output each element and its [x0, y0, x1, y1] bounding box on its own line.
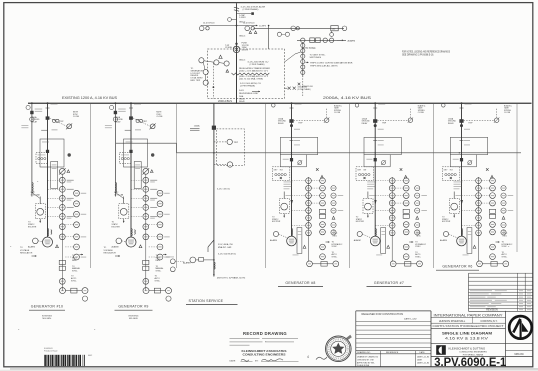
- svg-text:3-1/C 500 MCM CU: 3-1/C 500 MCM CU: [218, 254, 237, 256]
- svg-text:ALARM: ALARM: [112, 246, 119, 249]
- svg-text:4: 4: [307, 355, 309, 359]
- svg-text:EXCITER: EXCITER: [28, 226, 37, 228]
- svg-text:MVA INT. CAP.: MVA INT. CAP.: [218, 246, 232, 249]
- svg-text:REFERENCE: REFERENCE: [386, 352, 399, 354]
- svg-text:GND-5: GND-5: [239, 59, 246, 61]
- svg-text:34.5KV: 34.5KV: [242, 50, 249, 52]
- svg-text:SYNC.: SYNC.: [415, 257, 421, 259]
- svg-text:SINGLE LINE DIAGRAM: SINGLE LINE DIAGRAM: [442, 331, 492, 335]
- svg-text:REGULATOR: REGULATOR: [104, 251, 117, 254]
- svg-text:200: 200: [332, 29, 335, 31]
- svg-text:RELAY: RELAY: [278, 122, 285, 125]
- svg-text:SYNC.: SYNC.: [332, 246, 338, 248]
- svg-text:3.PV.6090.E-1: 3.PV.6090.E-1: [434, 355, 506, 369]
- svg-text:(3 PER PHASE): (3 PER PHASE): [298, 88, 311, 91]
- svg-text:INTERNATIONAL PAPER COMPANY: INTERNATIONAL PAPER COMPANY: [434, 313, 504, 317]
- svg-text:2000A, 4.16 KV BUS: 2000A, 4.16 KV BUS: [323, 96, 371, 100]
- svg-text:STATION SERVICE: STATION SERVICE: [189, 299, 224, 303]
- svg-text:DATE:: DATE:: [230, 359, 237, 362]
- svg-text:1200A: 1200A: [194, 125, 200, 128]
- svg-text:MG GEN.: MG GEN.: [42, 318, 51, 320]
- svg-text:EXCITER: EXCITER: [272, 221, 281, 223]
- svg-text:REGULATOR: REGULATOR: [20, 251, 33, 254]
- svg-text:TRIP: TRIP: [234, 142, 239, 144]
- svg-text:EXCITER: EXCITER: [112, 226, 121, 228]
- svg-text:SYNC.: SYNC.: [156, 271, 162, 273]
- svg-text:CLOSE: CLOSE: [156, 116, 163, 118]
- svg-text:DATE 1-21-80: DATE 1-21-80: [417, 355, 429, 358]
- svg-text:APPROVED BY SEL: APPROVED BY SEL: [357, 361, 375, 364]
- svg-text:DRAWING NO.: DRAWING NO.: [357, 351, 371, 354]
- svg-text:ALARM: ALARM: [348, 39, 356, 42]
- svg-text:REG.: REG.: [333, 235, 338, 237]
- svg-text:ALARM: ALARM: [183, 261, 191, 264]
- svg-text:480Y/277V, 3-PHASE, 60 HZ: 480Y/277V, 3-PHASE, 60 HZ: [217, 277, 246, 280]
- svg-text:CHECKED BY JTM: CHECKED BY JTM: [357, 359, 374, 361]
- svg-text:M05-039: M05-039: [514, 354, 524, 356]
- svg-text:GENERATOR #10: GENERATOR #10: [31, 305, 64, 309]
- svg-text:EXISTING 1200 A, 4.16 KV BUS: EXISTING 1200 A, 4.16 KV BUS: [62, 96, 117, 100]
- svg-text:GND-5: GND-5: [239, 35, 246, 37]
- svg-text:4042: 4042: [88, 355, 92, 357]
- svg-text:RELAY: RELAY: [115, 120, 122, 123]
- svg-text:EXCITER: EXCITER: [442, 221, 451, 223]
- svg-text:(2 PER PHASE): (2 PER PHASE): [240, 85, 255, 88]
- svg-text:14.4 KV/120: 14.4 KV/120: [203, 22, 215, 24]
- svg-text:KLEINSCHMIDT & DUTTING: KLEINSCHMIDT & DUTTING: [449, 346, 486, 350]
- svg-text:REG.: REG.: [416, 235, 421, 237]
- svg-text:RELAY: RELAY: [448, 122, 455, 125]
- svg-text:H0567/J-200: H0567/J-200: [302, 86, 313, 88]
- svg-text:REG.: REG.: [156, 260, 161, 262]
- svg-text:CLOSE: CLOSE: [418, 112, 425, 114]
- svg-text:BY:: BY:: [255, 360, 259, 362]
- svg-text:3-003: 3-003: [239, 90, 244, 92]
- svg-text:TRIPS 5E6 & AT ALL UNITS: TRIPS 5E6 & AT ALL UNITS: [310, 64, 338, 67]
- svg-text:REG.: REG.: [503, 235, 508, 237]
- svg-text:ALARM: ALARM: [440, 239, 447, 242]
- svg-text:14.4 KV/120: 14.4 KV/120: [243, 22, 255, 24]
- svg-text:(241.72 212 MVA, OHSE): (241.72 212 MVA, OHSE): [239, 78, 263, 81]
- svg-text:REG.: REG.: [72, 260, 77, 262]
- svg-text:SYNC.: SYNC.: [502, 246, 508, 248]
- svg-text:ALARM: ALARM: [270, 239, 277, 242]
- svg-text:BKR. TRIP: BKR. TRIP: [191, 80, 201, 82]
- svg-text:1-35KV: 1-35KV: [239, 17, 246, 19]
- svg-text:VOLTAGE: VOLTAGE: [104, 249, 114, 252]
- svg-text:SWITCHES: SWITCHES: [310, 57, 322, 59]
- svg-text:ALARM: ALARM: [354, 239, 361, 242]
- svg-text:CURTIS STATION HYDROELECTRIC P: CURTIS STATION HYDROELECTRIC PROJECT: [433, 324, 505, 328]
- svg-text:REVISION: REVISION: [486, 309, 498, 312]
- svg-text:EXCITER: EXCITER: [356, 221, 365, 223]
- svg-text:TO UNIT SYNC.: TO UNIT SYNC.: [310, 54, 326, 56]
- svg-text:DRAWN BY CEA/WOOD: DRAWN BY CEA/WOOD: [357, 355, 379, 358]
- svg-text:RELEASED FOR CONSTRUCTION: RELEASED FOR CONSTRUCTION: [362, 312, 404, 316]
- svg-text:SYNC.: SYNC.: [155, 280, 161, 282]
- svg-text:CLOSE: CLOSE: [504, 112, 511, 114]
- svg-text:2000 A BUS: 2000 A BUS: [218, 99, 232, 103]
- svg-text:CONSULTING ENGINEERS: CONSULTING ENGINEERS: [459, 352, 487, 354]
- svg-text:VOLTAGE: VOLTAGE: [20, 249, 30, 252]
- svg-text:2L-MPS: 2L-MPS: [259, 26, 267, 28]
- svg-text:Potsdam Road: Potsdam Road: [44, 350, 57, 353]
- svg-text:4.16 KV & 13.8 KV: 4.16 KV & 13.8 KV: [445, 336, 489, 340]
- svg-text:SYNC.: SYNC.: [502, 257, 508, 259]
- svg-text:SEE DRAWING 3.PV.6086.E-16.: SEE DRAWING 3.PV.6086.E-16.: [402, 54, 434, 57]
- svg-text:3-1/C-350.4 MCM, ACSR: 3-1/C-350.4 MCM, ACSR: [241, 6, 266, 9]
- svg-text:CLOSE: CLOSE: [73, 116, 80, 118]
- svg-text:TRIPS 13.8KV CURTIS SUBSTATION: TRIPS 13.8KV CURTIS SUBSTATION BKR.: [310, 61, 353, 64]
- svg-text:CORINTH,N.Y.: CORINTH,N.Y.: [480, 319, 498, 323]
- svg-text:HUDSON RIVER MILL: HUDSON RIVER MILL: [439, 319, 466, 323]
- svg-text:(4160 + 2.5% MA) B41TO. 52*1: (4160 + 2.5% MA) B41TO. 52*1: [239, 70, 268, 73]
- svg-text:ALARM: ALARM: [28, 246, 35, 249]
- svg-text:DATE 1-4-82: DATE 1-4-82: [404, 318, 417, 321]
- svg-text:MG GEN.: MG GEN.: [129, 318, 138, 320]
- svg-text:RELAY: RELAY: [31, 120, 38, 123]
- svg-text:SYNC.: SYNC.: [332, 257, 338, 259]
- svg-text:RECORD DRAWING: RECORD DRAWING: [243, 331, 287, 336]
- svg-text:GENERATOR #6: GENERATOR #6: [442, 265, 472, 269]
- svg-text:RELAY: RELAY: [239, 100, 246, 103]
- svg-text:SCALE NONE: SCALE NONE: [357, 364, 370, 367]
- svg-text:(2 PER PHASE): (2 PER PHASE): [243, 8, 259, 11]
- svg-text:DATE: DATE: [419, 351, 425, 354]
- svg-text:GENERATOR #8: GENERATOR #8: [285, 281, 315, 285]
- svg-text:CLOSE: CLOSE: [334, 112, 341, 114]
- svg-text:DATE: DATE: [417, 358, 423, 361]
- svg-text:(2 PER PHASE): (2 PER PHASE): [250, 63, 265, 66]
- svg-text:5 KV, 400A, 250: 5 KV, 400A, 250: [218, 243, 234, 246]
- svg-text:RELAY: RELAY: [362, 122, 369, 125]
- svg-text:DATE 1-21-80: DATE 1-21-80: [417, 361, 429, 364]
- svg-text:SYNC.: SYNC.: [72, 271, 78, 273]
- svg-text:3-1/C #4/0 CU: 3-1/C #4/0 CU: [217, 189, 231, 191]
- svg-text:GENERATOR #9: GENERATOR #9: [118, 305, 148, 309]
- svg-text:CONSULTING ENGINEERS: CONSULTING ENGINEERS: [243, 353, 286, 357]
- svg-text:SYNC.: SYNC.: [71, 280, 77, 282]
- svg-text:SYNC.: SYNC.: [415, 246, 421, 248]
- svg-text:GENERATOR #7: GENERATOR #7: [374, 281, 404, 285]
